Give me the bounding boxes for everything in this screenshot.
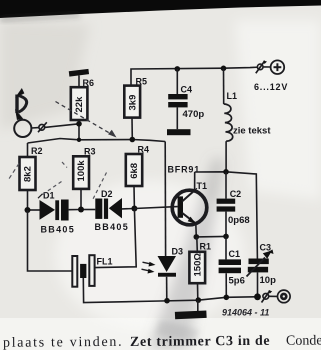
wire: +V supply top rail — [131, 67, 257, 87]
resistor R4 6k8 — [126, 144, 149, 208]
resistor R2 8k2 — [20, 143, 43, 210]
node: D1/D2/R3 junction — [78, 207, 84, 213]
svg-text:R3: R3 — [84, 147, 96, 157]
svg-text:6k8: 6k8 — [129, 163, 140, 179]
resistor R3 100k — [73, 147, 95, 210]
svg-text:BB405: BB405 — [95, 222, 130, 232]
wire: FL1 centre electrode to ground rail — [83, 278, 160, 303]
svg-text:0p68: 0p68 — [228, 215, 250, 226]
input jack connector — [14, 120, 79, 137]
ground bar (R6 top) — [69, 69, 89, 77]
node: collector/L1/C2 junction — [223, 169, 229, 175]
wire: varicap row — [28, 209, 40, 211]
svg-text:6...12V: 6...12V — [254, 82, 288, 92]
photodiode D3 — [142, 142, 184, 301]
capacitor C1 5p6 — [219, 236, 245, 297]
svg-text:150Ω: 150Ω — [192, 253, 203, 277]
wire: bias node row — [28, 139, 166, 144]
node: row/R3 junction — [77, 138, 81, 142]
ground bar (C4) — [167, 129, 191, 135]
svg-text:BB405: BB405 — [41, 225, 76, 235]
node: R1 on ground rail — [196, 297, 202, 303]
wire: R1 ground stub — [197, 300, 199, 312]
wire: bottom ground rail — [160, 297, 258, 301]
node: C3 on ground rail — [254, 293, 261, 300]
svg-text:R5: R5 — [136, 76, 148, 86]
svg-text:22k: 22k — [74, 96, 85, 113]
capacitor C2 0p68 — [217, 172, 250, 237]
svg-text:R1: R1 — [200, 242, 212, 252]
capacitor C4 470p — [168, 69, 204, 129]
node: C1 on ground rail — [224, 295, 230, 301]
node: R2/D1/FL1 corner junction — [25, 207, 31, 213]
svg-text:zie tekst: zie tekst — [233, 126, 271, 137]
supply terminal +, 6...12V — [254, 60, 288, 92]
svg-text:Condens: Condens — [286, 333, 321, 348]
wire: collector up to rail — [194, 172, 196, 191]
dashed pencil mark near R2 — [9, 164, 20, 180]
wire: base row — [134, 207, 177, 209]
svg-text:D2: D2 — [101, 189, 113, 199]
trimmer capacitor C3 10p — [247, 243, 277, 297]
svg-text:FL1: FL1 — [97, 257, 113, 267]
dashed pencil arrow toward D2 — [93, 173, 107, 200]
filter FL1 — [72, 255, 112, 287]
svg-text:T1: T1 — [197, 181, 208, 191]
svg-text:D3: D3 — [172, 247, 184, 257]
varicap D1 BB405 — [38, 191, 81, 235]
dashed pencil arrow toward D1 — [41, 162, 67, 196]
svg-text:D1: D1 — [43, 191, 55, 201]
resistor R1 150 ohm — [189, 237, 211, 300]
ground bar (R1) — [175, 311, 207, 320]
node: emitter junction — [194, 234, 200, 240]
svg-text:C1: C1 — [229, 249, 241, 259]
wire: FL1 right to base node — [95, 209, 136, 268]
svg-text:R6: R6 — [83, 78, 95, 88]
svg-text:914064 - 11: 914064 - 11 — [222, 308, 269, 318]
output jack connector — [262, 290, 291, 303]
svg-text:10p: 10p — [260, 275, 277, 286]
svg-text:100k: 100k — [76, 160, 87, 182]
varicap D2 BB405 — [81, 189, 134, 232]
wire: emitter down and emitter row — [196, 224, 226, 237]
svg-text:R4: R4 — [138, 144, 150, 154]
svg-text:470p: 470p — [183, 109, 205, 120]
svg-text:8k2: 8k2 — [23, 166, 34, 182]
svg-text:plaats te vinden.: plaats te vinden. — [3, 335, 123, 350]
wire: collector rail to C3 branch — [195, 172, 258, 259]
node: C2/C1 junction — [223, 234, 229, 240]
svg-text:Zet trimmer C3 in de: Zet trimmer C3 in de — [130, 334, 270, 350]
supply plug connector — [256, 61, 271, 73]
node: R5/R4 row junction — [130, 137, 136, 143]
svg-text:5p6: 5p6 — [229, 276, 245, 287]
svg-text:C2: C2 — [230, 189, 242, 199]
node: C4 on +V rail — [175, 66, 181, 72]
node: D2/R4/FL1/base junction — [131, 206, 137, 212]
adjustment dashed arrow through R6 — [56, 102, 117, 138]
inductor L1, zie tekst — [224, 68, 272, 172]
node: input/R6 junction — [76, 121, 82, 127]
trimmer resistor R6 22k — [71, 76, 94, 141]
node: D3 on ground rail — [164, 298, 170, 304]
svg-text:L1: L1 — [227, 91, 238, 101]
svg-text:C4: C4 — [181, 85, 193, 95]
wire: left column down to FL1 — [28, 210, 73, 271]
svg-text:C3: C3 — [260, 243, 272, 253]
node: L1 on +V rail — [221, 66, 227, 72]
input arrow symbol — [16, 89, 27, 120]
transistor T1 BFR91 — [168, 165, 208, 225]
caption text — [3, 333, 321, 350]
svg-text:3k9: 3k9 — [128, 95, 139, 111]
resistor R5 3k9 — [124, 76, 147, 139]
svg-text:R2: R2 — [31, 146, 43, 156]
